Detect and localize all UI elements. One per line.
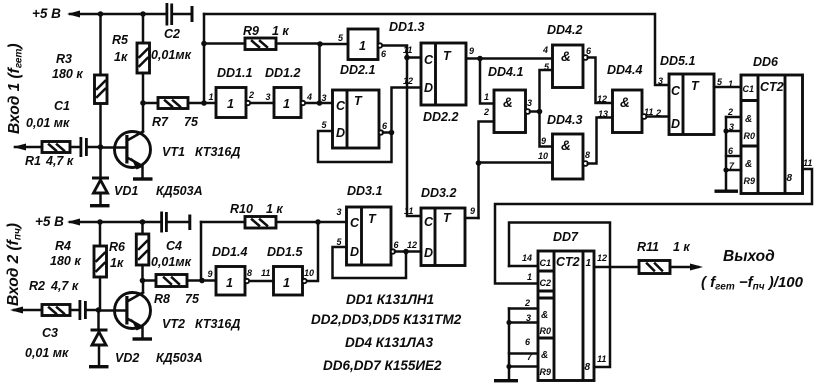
inverter DD1.1 [204, 66, 274, 118]
svg-text:R6: R6 [109, 240, 126, 254]
svg-text:C1: C1 [743, 84, 755, 94]
svg-text:8: 8 [787, 173, 793, 184]
node DD4.1 out [537, 109, 543, 115]
svg-text:T: T [691, 79, 700, 93]
svg-text:R0: R0 [540, 326, 552, 336]
svg-text:R5: R5 [112, 33, 129, 47]
svg-text:R11: R11 [637, 240, 659, 254]
svg-text:2: 2 [655, 108, 661, 118]
svg-text:C: C [336, 99, 346, 113]
svg-text:КТ316Д: КТ316Д [195, 317, 240, 331]
capacitor C2 0.01uF [151, 3, 194, 62]
svg-text:С4: С4 [166, 239, 182, 253]
svg-text:R9: R9 [243, 24, 259, 38]
svg-text:&: & [745, 159, 752, 170]
resistor R3 180k [52, 14, 107, 147]
svg-text:2: 2 [483, 107, 489, 117]
input 1 arrow [13, 144, 26, 151]
svg-text:1 к: 1 к [673, 240, 690, 254]
svg-text:180 к: 180 к [52, 67, 83, 81]
svg-text:D: D [424, 81, 433, 95]
node X / R9 junction [201, 41, 207, 47]
svg-text:5: 5 [322, 120, 328, 130]
svg-text:9: 9 [470, 206, 475, 216]
inverter DD1.2 [265, 66, 320, 118]
svg-text:R9: R9 [540, 367, 552, 377]
svg-text:R10: R10 [230, 202, 253, 216]
svg-text:3: 3 [527, 98, 532, 108]
node base VT2 [96, 307, 102, 313]
reset input stubs DD6 [726, 117, 741, 170]
svg-text:С1: С1 [54, 99, 70, 113]
svg-text:12: 12 [597, 253, 607, 263]
svg-text:C: C [424, 215, 434, 229]
svg-text:4,7 к: 4,7 к [45, 154, 74, 168]
node R10/DD3.1 C [315, 219, 321, 225]
ground (DD6 resets) [715, 190, 739, 193]
svg-text:КТ316Д: КТ316Д [195, 145, 240, 159]
svg-text:6: 6 [586, 46, 592, 56]
svg-text:R9: R9 [744, 176, 756, 186]
wire DD3.2 out up to DD4.1 pin2 / DD4.3 pin10 [479, 122, 495, 219]
svg-text:C: C [671, 84, 681, 98]
capacitor C3 0.01uF [25, 300, 98, 360]
resistor R5 1k [112, 14, 150, 101]
svg-text:3: 3 [322, 93, 327, 103]
svg-text:6: 6 [728, 146, 734, 156]
svg-text:3: 3 [337, 207, 342, 217]
svg-text:R8: R8 [154, 292, 170, 306]
wire DD4.1 out to DD4.2 pin5 and DD4.3 pin9 [540, 70, 553, 147]
svg-text:12: 12 [403, 76, 413, 86]
svg-text:DD4.1: DD4.1 [488, 65, 523, 79]
output arrow [690, 264, 703, 271]
svg-text:1: 1 [283, 276, 290, 290]
svg-text:DD4.2: DD4.2 [547, 23, 582, 37]
svg-text:R4: R4 [55, 239, 71, 253]
svg-text:DD1.4: DD1.4 [212, 245, 247, 259]
svg-text:DD4.3: DD4.3 [547, 113, 582, 127]
resistor R11 1k [637, 240, 698, 274]
svg-text:11: 11 [404, 206, 413, 216]
svg-text:&: & [561, 138, 571, 153]
wire: long top line to DD5.1 clock [204, 14, 669, 85]
D feedback loop DD2.1 [318, 131, 392, 162]
svg-text:DD3.1: DD3.1 [347, 184, 382, 198]
svg-text:180 к: 180 к [50, 254, 81, 268]
svg-text:11: 11 [597, 354, 606, 364]
svg-text:R7: R7 [152, 115, 169, 129]
wire DD2.2 out to DD4.2 pin4 and DD4.1 pin1 [480, 57, 553, 60]
svg-text:1: 1 [283, 97, 290, 111]
svg-text:2: 2 [248, 90, 254, 100]
node collector/R6/R8 [140, 278, 146, 284]
node DD2.1 out [389, 130, 395, 136]
svg-text:DD1.3: DD1.3 [389, 20, 424, 34]
svg-text:D: D [424, 246, 433, 260]
svg-text:75: 75 [185, 292, 200, 306]
node DD3.1 out / DD3.2 D [403, 249, 409, 255]
resistor R10 1k [201, 202, 318, 228]
svg-text:13: 13 [598, 109, 608, 119]
transistor VT1 KT316D [115, 103, 241, 177]
svg-text:1: 1 [728, 79, 733, 89]
+5V input arrow (channel 2) [67, 219, 80, 226]
svg-text:6: 6 [394, 240, 400, 250]
node rail/R5 [140, 11, 146, 17]
svg-text:11: 11 [803, 158, 812, 168]
node rail/R6 [140, 219, 146, 225]
svg-text:R0: R0 [744, 131, 756, 141]
svg-text:1: 1 [359, 39, 366, 53]
svg-text:&: & [620, 95, 630, 110]
svg-text:D: D [336, 126, 345, 140]
svg-text:8: 8 [247, 268, 252, 278]
svg-text:0,01мк: 0,01мк [151, 255, 192, 269]
node collector/R5/R7 [140, 100, 146, 106]
svg-text:VT1: VT1 [162, 145, 185, 159]
svg-text:DD1.2: DD1.2 [265, 66, 300, 80]
svg-text:1к: 1к [110, 256, 124, 270]
wire +5V rail channel 1 [70, 13, 166, 16]
resistor R6 1k [109, 222, 149, 281]
inverter DD1.5 [261, 222, 318, 295]
node DD2.2 out [477, 56, 483, 62]
svg-text:4: 4 [542, 45, 548, 55]
svg-text:4,7 к: 4,7 к [50, 279, 79, 293]
ground (VT2 emitter) [133, 337, 153, 340]
transistor VT2 KT316D [115, 281, 241, 338]
wire node to VT2 base [99, 309, 126, 312]
svg-text:1: 1 [226, 276, 233, 290]
ground (VD1) [90, 204, 110, 207]
wire R9 node down to DD2.1 C [318, 44, 321, 103]
svg-text:14: 14 [522, 253, 532, 263]
svg-text:С2: С2 [164, 27, 180, 41]
wire DD1.3 out to DD2.2 C pin [407, 56, 421, 59]
input 2 arrow [10, 307, 23, 314]
reset input stubs DD7 [509, 309, 538, 367]
svg-text:DD2.2: DD2.2 [423, 110, 458, 124]
node DD1.3 out / DD2.2 C [404, 55, 410, 61]
svg-text:КД503А: КД503А [156, 184, 203, 198]
svg-text:75: 75 [184, 115, 199, 129]
svg-text:R3: R3 [56, 52, 72, 66]
svg-text:T: T [354, 94, 363, 108]
svg-text:4: 4 [306, 92, 312, 102]
svg-text:C2: C2 [540, 278, 552, 288]
svg-text:DD6: DD6 [753, 55, 779, 69]
node R9/DD1.3 input [317, 41, 323, 47]
svg-text:10: 10 [304, 268, 314, 278]
wire to DD4.3 pin10 [479, 161, 553, 164]
svg-text:T: T [443, 211, 452, 225]
svg-text:9: 9 [469, 46, 474, 56]
svg-text:1: 1 [209, 92, 214, 102]
wire: node X vertical (C2/R9/R7/DD1.1 input column) [203, 14, 206, 103]
svg-text:&: & [745, 114, 752, 125]
svg-text:11: 11 [403, 45, 412, 55]
svg-text:1: 1 [586, 258, 592, 269]
ground (DD7 resets) [494, 379, 518, 382]
wire DD2.1 out up to DD2.2 D [392, 88, 422, 133]
svg-text:DD4.4: DD4.4 [607, 63, 642, 77]
reset bus vertical DD6 [725, 117, 728, 190]
svg-text:+5 В: +5 В [32, 6, 61, 21]
svg-text:Выход: Выход [723, 248, 775, 265]
svg-text:1к: 1к [114, 50, 128, 64]
svg-text:&: & [541, 310, 548, 321]
svg-text:0,01мк: 0,01мк [151, 48, 192, 62]
resistor R1 4.7k [15, 142, 79, 169]
svg-text:6: 6 [381, 49, 387, 59]
diode VD2 KD503A [91, 310, 203, 365]
node DD3.2 out branch [476, 160, 482, 166]
wire node to VT1 base [101, 146, 126, 149]
svg-text:DD3.2: DD3.2 [421, 186, 456, 200]
svg-text:DD5.1: DD5.1 [660, 54, 695, 68]
svg-text:9: 9 [208, 269, 213, 279]
svg-text:С3: С3 [42, 326, 58, 340]
svg-text:CT2: CT2 [760, 80, 784, 94]
svg-text:Вход 2 (fпч): Вход 2 (fпч) [5, 223, 24, 306]
inverter DD1.3 [320, 20, 424, 216]
node DD1.2 out / DD2.1 C [317, 100, 323, 106]
wire DD7 output pin12 [594, 266, 639, 269]
svg-text:T: T [368, 212, 377, 226]
C1 input stub DD7 [509, 265, 538, 268]
svg-text:5: 5 [338, 33, 344, 43]
node rail/R4 [97, 219, 103, 225]
inverter DD1.4 [202, 245, 274, 295]
svg-text:DD6,DD7 К155ИЕ2: DD6,DD7 К155ИЕ2 [323, 358, 442, 373]
svg-text:0,01 мк: 0,01 мк [25, 346, 69, 360]
svg-text:VD2: VD2 [115, 351, 139, 365]
resistor R4 180k [50, 222, 107, 310]
svg-text:DD2.1: DD2.1 [340, 63, 375, 77]
node X / R7-DD1.1 junction [201, 100, 207, 106]
svg-text:6: 6 [382, 121, 388, 131]
svg-text:DD1 К131ЛН1: DD1 К131ЛН1 [346, 292, 434, 307]
svg-text:T: T [443, 49, 452, 63]
svg-text:10: 10 [538, 151, 548, 161]
svg-text:C: C [350, 216, 360, 230]
svg-text:&: & [541, 350, 548, 361]
svg-text:DD2,DD3,DD5 К131ТМ2: DD2,DD3,DD5 К131ТМ2 [311, 312, 462, 327]
svg-text:8: 8 [585, 362, 591, 373]
svg-text:2: 2 [727, 107, 733, 117]
resistor R9 1k [204, 24, 320, 50]
wire DD7 pin11 feedback to C1 [509, 223, 610, 368]
node rail/R3 [98, 11, 104, 17]
svg-text:1 к: 1 к [272, 24, 289, 38]
svg-text:6: 6 [525, 337, 531, 347]
ground (VT1 emitter) [133, 177, 153, 180]
node base VT1 [98, 144, 104, 150]
+5V input arrow (channel 1) [67, 11, 80, 18]
svg-text:DD1.1: DD1.1 [217, 66, 252, 80]
resistor R8 75 [143, 275, 203, 307]
svg-text:R1: R1 [25, 154, 41, 168]
svg-text:3: 3 [266, 92, 271, 102]
svg-text:КД503А: КД503А [156, 351, 203, 365]
svg-text:1: 1 [227, 97, 234, 111]
svg-text:DD4 К131ЛА3: DD4 К131ЛА3 [345, 335, 434, 350]
svg-text:&: & [503, 95, 513, 110]
svg-text:&: & [561, 49, 571, 64]
D feedback loop DD3.1 [333, 247, 407, 278]
wire DD6 output pin11 to DD7 C2 [495, 169, 812, 284]
svg-text:DD7: DD7 [553, 230, 579, 244]
svg-text:11: 11 [261, 268, 270, 278]
svg-text:VD1: VD1 [114, 184, 138, 198]
resistor R7 75 [143, 98, 204, 130]
svg-text:R2: R2 [29, 279, 45, 293]
svg-text:DD1.5: DD1.5 [267, 245, 303, 259]
svg-text:D: D [671, 117, 680, 131]
svg-text:2: 2 [524, 298, 530, 308]
wire +5V rail channel 2 [70, 221, 161, 224]
svg-text:CT2: CT2 [556, 255, 580, 269]
capacitor C4 0.01uF [151, 212, 192, 270]
svg-text:1 к: 1 к [266, 202, 283, 216]
svg-text:VT2: VT2 [162, 317, 185, 331]
svg-text:+5 В: +5 В [35, 214, 64, 229]
ground (VD2) [89, 365, 109, 368]
reset bus vertical DD7 [508, 309, 511, 380]
svg-text:12: 12 [407, 240, 417, 250]
capacitor C1 0.01uF [26, 99, 100, 157]
wire: channel-2 node column (C4/R10/R8/DD1.4 input) [200, 222, 203, 281]
svg-text:5: 5 [337, 237, 343, 247]
svg-text:0,01 мк: 0,01 мк [26, 116, 70, 130]
svg-text:C: C [424, 53, 434, 67]
svg-text:9: 9 [541, 136, 546, 146]
svg-text:12: 12 [597, 94, 607, 104]
wire DD3.1 out to DD3.2 D [406, 250, 421, 253]
svg-text:( fгет −fпч )/100: ( fгет −fпч )/100 [701, 274, 804, 293]
svg-text:1: 1 [527, 272, 532, 282]
svg-text:D: D [350, 245, 359, 259]
diode VD1 KD503A [92, 147, 203, 204]
svg-text:5: 5 [717, 77, 723, 87]
svg-text:8: 8 [585, 150, 590, 160]
svg-text:Вход 1 (fгет): Вход 1 (fгет) [6, 43, 25, 134]
svg-text:1: 1 [484, 92, 489, 102]
svg-text:C1: C1 [540, 258, 552, 268]
node R8/DD1.4 input [199, 278, 205, 284]
svg-text:3: 3 [658, 76, 663, 86]
resistor R2 4.7k [14, 279, 79, 316]
